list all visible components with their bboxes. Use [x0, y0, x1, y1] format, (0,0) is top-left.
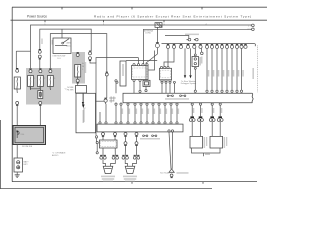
battery box: [14, 158, 23, 172]
top border tick 1: [61, 7, 63, 9]
wire fuse block to junction box right: [39, 105, 41, 126]
speaker1 connector pair a: [100, 154, 106, 156]
radio bottom pin 2: [127, 103, 129, 105]
bottom border tick 2: [202, 182, 204, 184]
wire chain speaker 3 upper: [125, 136, 127, 142]
radio feed wire 5 label: [228, 70, 230, 77]
svg-text:BATT: BATT: [24, 161, 30, 164]
wire junction box to battery: [16, 145, 18, 159]
wire chain speaker 3 lower: [124, 145, 126, 157]
terminal circle J5: [201, 52, 204, 55]
rear amp connector 4: [218, 116, 222, 118]
radio top pin x207: [206, 90, 208, 92]
rear amp wire 4 label: [221, 108, 222, 113]
connector on wire C: [106, 71, 108, 73]
radio feed wire 2: [211, 48, 213, 90]
junction block gray body: [26, 68, 61, 105]
wire chain speaker 1: [102, 136, 104, 157]
radio-amp wire 10 label: [178, 109, 179, 115]
radio bottom pin 9: [170, 103, 172, 105]
wire noise filter down: [82, 93, 84, 102]
fuse F3 connector top: [49, 68, 51, 70]
rear amp wire 1: [191, 105, 193, 116]
stereo component amplifier box: [97, 124, 183, 132]
amp top pin 6: [152, 122, 154, 124]
radio-amp wire 1 label: [122, 109, 123, 115]
J/C2 pin top 1: [160, 66, 162, 68]
shielded legend circles: [143, 135, 145, 137]
wire battery feed vertical: [15, 51, 17, 69]
radio-amp wire 8: [164, 105, 166, 122]
speaker2 lead wires: [125, 159, 136, 166]
strip connector R6: [231, 43, 233, 45]
inline pin d: [173, 81, 175, 83]
rear speaker amp box A: [190, 136, 203, 148]
ignition box terminal bar: [55, 44, 67, 46]
connector pair on wire B lower: [39, 58, 41, 60]
shield cable pins: [168, 130, 170, 132]
frame left border: [11, 7, 13, 181]
amp top pin 3: [134, 122, 136, 124]
radio feed wire 7: [236, 48, 238, 90]
antenna cord diagonal run: [146, 48, 157, 89]
front speaker LH symbol: [103, 166, 113, 173]
defogger arrow 2: [189, 75, 191, 78]
wire B2 right segment to terminal: [144, 29, 253, 63]
strip connector R1: [206, 43, 208, 45]
antenna inline connector: [156, 42, 159, 44]
top border tick 2: [131, 7, 133, 9]
bottom border tick 1: [131, 182, 133, 184]
power antenna terminal 1: [188, 38, 191, 41]
radio top pin x241.5: [240, 90, 242, 92]
relay pin top: [194, 54, 196, 56]
connector grommet at radio: [104, 97, 106, 99]
svg-text:See Radio: See Radio: [160, 172, 170, 174]
amp top pin 9: [170, 122, 172, 124]
amp bottom connector 4: [135, 135, 137, 137]
rear amp wire 2 label: [201, 108, 202, 113]
connector strip rail: [162, 44, 256, 47]
connector pair x90 upper: [89, 50, 91, 52]
radio feed wire 5: [226, 48, 228, 90]
svg-text:*1 : UPGRADE: *1 : UPGRADE: [52, 151, 66, 154]
J/C1 bottom pin 2: [139, 79, 141, 81]
radio bracket tall box: [76, 93, 96, 133]
radio bottom pin R1: [191, 103, 193, 105]
fuse F1 AM1: [28, 76, 34, 87]
AM1 fuse connector top: [77, 52, 79, 54]
grid tick 3: [163, 20, 165, 22]
radio feed wire 1 label: [208, 70, 210, 77]
amp left pins: [99, 122, 101, 124]
radio bottom pin 7: [158, 103, 160, 105]
ignition switch contact arm: [63, 39, 69, 43]
shield cable run: [169, 132, 173, 169]
ground symbol battery: [15, 175, 20, 178]
inline pin c: [169, 81, 171, 83]
connector pair on wire B upper: [39, 49, 41, 51]
radio internal connector mark 2: [180, 95, 182, 97]
wire C corner run: [50, 34, 107, 73]
wire A terminal circle: [252, 24, 255, 27]
fuse F2 connector top: [39, 68, 41, 70]
front speaker RH label: [123, 176, 137, 178]
AM1 fuse connector bottom: [77, 82, 79, 84]
radio-amp wire 4 label: [142, 109, 143, 115]
wire branch y58 to label box: [96, 58, 139, 63]
option dotted wire right: [256, 46, 258, 93]
wire B bypass down: [90, 60, 96, 136]
strip connector R3: [216, 43, 218, 45]
radio feed wire 4 label: [223, 70, 225, 77]
rear speaker amp box B: [210, 136, 223, 148]
radio bottom pin 5: [146, 103, 148, 105]
bypass wire pin: [95, 136, 97, 138]
wire C lower segment: [106, 76, 108, 98]
radio-amp wire 6 label: [154, 109, 155, 115]
relay wire top: [194, 48, 196, 53]
frame bottom border: [12, 181, 257, 183]
radio-amp wire 7: [158, 105, 160, 122]
speaker1 connector pair b: [112, 154, 118, 156]
radio internal mark label: [165, 98, 189, 100]
rear amp wire 3: [211, 105, 213, 116]
wire line3 to power terminals: [165, 36, 189, 39]
radio-amp wire 7 label: [160, 109, 161, 115]
relay contact upper: [194, 58, 196, 60]
J/C1 pin 3: [142, 64, 144, 66]
amp top pin 10: [176, 122, 178, 124]
antenna plug symbol: [155, 23, 162, 28]
rear amp wire 4: [219, 105, 221, 116]
J/C1 bottom pin 1: [133, 79, 135, 81]
J/C3 left pins: [96, 142, 98, 144]
amp bottom connector 2: [114, 135, 116, 137]
amp left pin wires: [100, 104, 106, 122]
relay box: [192, 57, 199, 67]
radio-amp wire 4: [140, 105, 142, 122]
J/C2 pin top 3: [167, 66, 169, 68]
wire J/C2 down to radio b: [165, 82, 167, 93]
radio bottom pin 10: [176, 103, 178, 105]
wire J/C1 left-bottom to radio: [133, 81, 135, 93]
radio bottom pin x116: [115, 103, 117, 105]
relay vertical label: [199, 57, 201, 66]
wire branch y60.6: [126, 60, 157, 62]
svg-text:FILTER: FILTER: [67, 89, 74, 91]
fuse F4 connector bottom: [39, 104, 41, 106]
rear amp wire 3 label: [213, 108, 214, 113]
radio feed wire 8: [241, 48, 243, 90]
wire AM1 to noise filter: [77, 82, 79, 85]
strip connector L1: [167, 43, 169, 45]
amp bottom connector 1: [102, 135, 104, 137]
junction connector J/C 2: [160, 68, 172, 80]
rear amp connector 2: [199, 116, 203, 118]
strip connector R2: [211, 43, 213, 45]
junction connector J/C3: [100, 140, 118, 148]
battery cell upper: [17, 161, 20, 164]
speaker2 connector pair a: [122, 154, 128, 156]
radio-amp wire 8 label: [166, 109, 167, 115]
strip connector L4: [187, 43, 189, 45]
grid tick 1: [44, 20, 46, 22]
svg-text:ERY: ERY: [24, 164, 29, 166]
rear amp connector 1: [190, 116, 194, 118]
rear amp connector 3: [210, 116, 214, 118]
radio unit left vertical label: [110, 96, 112, 102]
radio top pin x195: [194, 90, 196, 92]
radio feed wire 8 label: [242, 70, 244, 77]
internal bus wire: [31, 87, 41, 91]
fusible link AM2: [14, 77, 20, 89]
radio-amp wire 3 label: [136, 109, 137, 115]
J/C1 pin 4: [146, 64, 148, 66]
radio top pin x212: [211, 90, 213, 92]
grid tick 2: [103, 20, 105, 22]
radio-amp wire 5 label: [148, 109, 149, 115]
wire chain speaker 4 upper: [136, 136, 138, 142]
terminal J5 vertical label: [201, 57, 203, 64]
svg-text:Defogger System: Defogger System: [181, 82, 197, 85]
J/C1 pin 1: [133, 64, 135, 66]
wire A horizontal bus y=25: [31, 25, 253, 69]
fusible link connector top: [16, 68, 18, 70]
radio feed wire 6: [231, 48, 233, 90]
radio top pin x232: [231, 90, 233, 92]
radio feed wire 3: [216, 48, 218, 90]
radio top pin x237: [236, 90, 238, 92]
wire battery feed horizontal: [16, 50, 30, 52]
amp top pin 7: [158, 122, 160, 124]
strip connector R5: [226, 43, 228, 45]
amp ground stub: [203, 153, 205, 156]
radio bottom pin 8: [164, 103, 166, 105]
wire B2 terminal circle: [252, 28, 255, 31]
inline pin a: [161, 81, 163, 83]
radio top pin x146: [145, 90, 147, 92]
radio bottom pin 6: [152, 103, 154, 105]
svg-text:AUDIO: AUDIO: [52, 154, 59, 157]
amp A vertical labels: [204, 137, 206, 148]
wire J/C1 right-bottom to radio: [139, 81, 141, 90]
ignition switch SW box: [53, 38, 71, 54]
relay wire bottom: [194, 69, 196, 90]
radio-amp wire 3: [134, 105, 136, 122]
amp top pin 5: [146, 122, 148, 124]
wire chain speaker 2: [114, 136, 116, 157]
shield label 2: [177, 172, 189, 174]
AM1 fuse gray block: [72, 52, 85, 84]
svg-text:CORD: CORD: [145, 33, 151, 35]
J/C2 pin bottom 2: [165, 80, 167, 82]
radio bottom pin R3: [211, 103, 213, 105]
rear amp wire 3 lower: [211, 121, 213, 136]
wire strip to J/C2 jog: [164, 48, 174, 66]
radio-amp wire 10: [176, 105, 178, 122]
antenna input arrow inside: [82, 105, 85, 109]
top border tick 3: [201, 7, 203, 9]
label box narrow: [120, 61, 126, 86]
scan edge left: [0, 120, 2, 189]
radio bottom pin 3: [134, 103, 136, 105]
wire B corner run: [40, 29, 91, 52]
radio feed wire 6 label: [233, 70, 235, 77]
shield termination symbol: [169, 169, 174, 172]
grommet stub wire: [96, 100, 105, 102]
radio-amp wire 1: [120, 105, 122, 122]
radio bottom pin R2: [199, 103, 201, 105]
defogger arrow 1: [184, 75, 186, 78]
amp top pin 2: [127, 122, 129, 124]
strip connector L3: [180, 43, 182, 45]
chain4 connector: [135, 145, 137, 147]
wire under label box: [115, 82, 117, 93]
strip connector L5: [193, 43, 195, 45]
speaker2 connector pair b: [134, 154, 140, 156]
frame top border: [12, 6, 267, 8]
wire to defogger arrow 2: [190, 48, 192, 75]
relay contact lower: [194, 62, 196, 64]
strip connector R8: [240, 43, 242, 45]
J/C2 third wire down: [169, 82, 171, 93]
radio-amp wire 5: [146, 105, 148, 122]
antenna plug microlabel: [155, 20, 161, 21]
fuse F2 ACC: [38, 76, 44, 87]
title band separator line: [11, 19, 268, 21]
fusible link MAIN symbol: [17, 131, 19, 138]
wire chain speaker 4 lower: [136, 145, 138, 157]
relay pin bottom: [194, 67, 196, 69]
wire B to fuse block: [39, 58, 41, 70]
scan edge bottom: [0, 187, 212, 189]
battery cell lower: [17, 166, 20, 169]
radio feed wire 3 label: [218, 70, 220, 77]
junction connector J/C 1: [132, 66, 149, 80]
radio feed wire 2 label: [213, 70, 215, 77]
antenna input vertical label: [83, 110, 85, 123]
battery ground wire: [16, 172, 18, 175]
fusible link connector bottom: [16, 104, 18, 106]
radio-amp wire 6: [152, 105, 154, 122]
wire strip corner to J/C1: [149, 51, 155, 71]
speaker1 lead wires: [103, 159, 115, 166]
pin above radio x117: [116, 81, 118, 83]
inline connector box on antenna cord: [143, 80, 150, 86]
wire C microlabel: [52, 40, 53, 45]
wire into J/C1: [138, 58, 140, 64]
ignition feed stub: [61, 29, 63, 38]
J/C3 wire left: [96, 138, 99, 152]
front speaker LH label: [101, 176, 115, 178]
amp ground bus: [192, 148, 221, 153]
svg-text:Radio and Player (6 Speaker Ex: Radio and Player (6 Speaker Except Rear …: [94, 14, 252, 18]
rear amp wire 1 label: [193, 108, 194, 113]
inline pin b: [165, 81, 167, 83]
shield ground connector: [171, 177, 173, 179]
chain3 connector: [124, 145, 126, 147]
wire J/C2 down to radio a: [161, 82, 163, 93]
fuse F3 RADIO: [48, 76, 54, 87]
antenna plug wire down: [156, 27, 158, 42]
radio top pin x222: [221, 90, 223, 92]
amp ground stub label: [205, 154, 210, 155]
radio feed wire 1: [206, 48, 208, 90]
pin above radio x116: [115, 80, 117, 82]
radio-amp wire 9: [170, 105, 172, 122]
wire to defogger arrow 1: [184, 48, 186, 75]
short wire pin d: [173, 83, 175, 93]
radio-amp wire 2: [127, 105, 129, 122]
radio-amp wire x116: [115, 105, 117, 122]
radio-amp wire 2 label: [129, 109, 130, 115]
vertical microlabel x86: [85, 62, 87, 73]
radio top pin x227: [226, 90, 228, 92]
radio bottom pin 4: [140, 103, 142, 105]
svg-text:ROOM R/B: ROOM R/B: [22, 146, 33, 148]
strip connector R4: [221, 43, 223, 45]
rear amp wire 2 lower: [200, 121, 202, 136]
front speaker RH symbol: [125, 166, 135, 173]
radio bottom pin R4: [219, 103, 221, 105]
radio top pin x140: [139, 90, 141, 92]
radio top pin x217: [216, 90, 218, 92]
strip connector L2: [173, 43, 175, 45]
radio feed wire 7 label: [238, 70, 240, 77]
strip connector R7: [236, 43, 238, 45]
amp top pin x116: [115, 122, 117, 124]
arrow into radio unit: [82, 102, 84, 105]
amp top pin 8: [164, 122, 166, 124]
wire fusible link to junction box left: [16, 105, 18, 126]
radio bottom pin 1: [120, 103, 122, 105]
label box vertical text: [122, 64, 124, 76]
noise filter box: [76, 86, 87, 94]
wire B microlabel: [41, 39, 42, 45]
strip connector R9: [244, 43, 246, 45]
svg-text:ACC: ACC: [67, 44, 72, 47]
amp B vertical labels: [224, 137, 226, 148]
grommet microlabel: [109, 97, 116, 99]
amp top pin 1: [120, 122, 122, 124]
svg-text:Power Source: Power Source: [27, 14, 47, 18]
amp bottom connector 3: [124, 135, 126, 137]
fuse F1 connector top: [29, 68, 31, 70]
J/C1 pin 2: [137, 64, 139, 66]
AM1 fuse: [75, 65, 81, 78]
power antenna terminal 2: [196, 38, 199, 41]
radio and player unit box: [123, 93, 252, 103]
connector pair x90 lower: [89, 60, 91, 62]
radio feed wire 4: [221, 48, 223, 90]
J/C2 pin top 2: [164, 66, 166, 68]
rear amp wire 2: [200, 105, 202, 116]
amp top pin 4: [140, 122, 142, 124]
strip connector L6: [199, 43, 201, 45]
radio internal connector mark 1: [167, 95, 169, 97]
radio box right brace edge: [252, 93, 253, 103]
wire strip to J/C2 pin1: [167, 48, 169, 66]
power antenna terminal labels: [185, 34, 199, 36]
radio-amp wire 9 label: [172, 109, 173, 115]
amp bottom pin stubs: [103, 131, 137, 134]
rear amp wire 4 lower: [219, 121, 221, 136]
wire to terminal circle J5: [201, 48, 203, 52]
shielded legend label: [140, 138, 160, 140]
J/C2 pin bottom 3: [169, 80, 171, 82]
J/C2 pin bottom 1: [161, 80, 163, 82]
